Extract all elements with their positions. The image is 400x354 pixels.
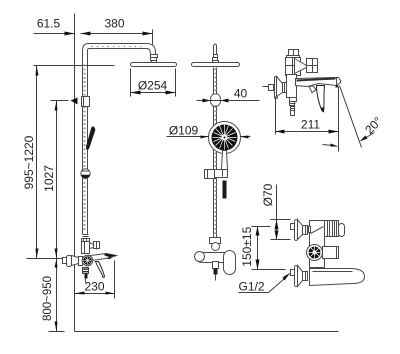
svg-text:800~950: 800~950 xyxy=(42,276,54,321)
faucet left fig: diverter cone xyxy=(90,243,94,249)
hand shower handle xyxy=(222,151,228,170)
shower column xyxy=(83,63,88,235)
dim 211 xyxy=(276,97,339,135)
overhead shower head xyxy=(131,63,177,67)
hand shower bracket xyxy=(205,170,228,179)
right top faucet: lower body xyxy=(287,75,297,98)
svg-text:230: 230 xyxy=(84,280,104,294)
wall line xyxy=(74,14,76,332)
middle fig: slider fitting 40 xyxy=(211,94,221,106)
middle faucet: body bar xyxy=(197,253,230,263)
svg-text:Ø70: Ø70 xyxy=(261,183,275,206)
G1/2 label xyxy=(239,273,291,294)
right bottom faucet: top flange xyxy=(291,220,311,241)
right bottom faucet: spout xyxy=(310,269,365,286)
dim 150+-15 xyxy=(240,226,286,269)
middle faucet: left cap xyxy=(195,252,205,262)
arm ball joint xyxy=(151,55,158,64)
faucet left fig: body xyxy=(82,242,90,254)
faucet left fig: diverter box xyxy=(94,242,100,250)
right top faucet: lever xyxy=(317,86,325,112)
right top faucet: diverter box xyxy=(307,59,318,73)
faucet left fig: control knob xyxy=(82,255,93,266)
middle faucet: top fitting xyxy=(210,238,221,244)
middle faucet: outlet xyxy=(213,262,219,281)
svg-text:40: 40 xyxy=(234,87,248,101)
hand shower hose xyxy=(223,181,227,199)
hand shower left fig xyxy=(86,126,95,149)
slider holder block xyxy=(82,97,90,107)
svg-text:380: 380 xyxy=(104,17,124,31)
right bottom faucet: control knob xyxy=(307,245,323,261)
dim 800-950 xyxy=(42,259,65,332)
dim 1027 xyxy=(42,101,57,259)
right bottom faucet: diverter knob xyxy=(325,221,345,237)
middle fig: column xyxy=(214,68,217,238)
middle faucet: lever handle xyxy=(224,251,236,275)
faucet left fig: wall flange xyxy=(63,256,83,267)
dim 995-1220 xyxy=(22,66,39,259)
column ring bracket xyxy=(81,169,90,179)
svg-text:G1/2: G1/2 xyxy=(239,280,265,294)
right top faucet: outlet stem xyxy=(290,98,297,116)
dim 230 xyxy=(75,261,115,299)
right top faucet: wall flange xyxy=(263,77,287,99)
hand shower head circle xyxy=(209,122,241,154)
right top faucet: diverter cone xyxy=(295,59,307,74)
svg-text:Ø109: Ø109 xyxy=(169,124,199,138)
dim D254 xyxy=(131,69,176,97)
right bottom faucet: bottom flange xyxy=(291,266,308,287)
right bottom faucet: right arm xyxy=(323,247,339,259)
faucet left fig: lever xyxy=(96,262,105,278)
right top faucet: spout xyxy=(296,78,341,88)
right top faucet: lever connector xyxy=(309,86,316,93)
middle fig: head edge view xyxy=(192,63,240,67)
angle 20 lines xyxy=(323,86,385,152)
faucet left fig: outlet stem xyxy=(83,268,89,283)
floor line xyxy=(75,331,339,333)
shower arm xyxy=(83,44,156,63)
right top faucet: top cap xyxy=(287,50,300,59)
svg-text:61.5: 61.5 xyxy=(37,17,61,31)
svg-text:150±15: 150±15 xyxy=(240,226,254,266)
svg-text:995~1220: 995~1220 xyxy=(22,135,36,189)
faucet center extension line xyxy=(27,258,71,260)
right bottom faucet: body xyxy=(310,221,325,268)
middle faucet: diverter ring xyxy=(212,243,220,251)
dim D109 xyxy=(167,124,251,139)
right top faucet: body xyxy=(286,58,301,76)
svg-text:211: 211 xyxy=(301,118,320,132)
svg-text:Ø254: Ø254 xyxy=(138,79,168,93)
holder knob xyxy=(71,98,78,105)
faucet left fig: top nut xyxy=(82,239,90,243)
head level extension line xyxy=(34,65,115,67)
faucet left fig: spout xyxy=(91,254,117,261)
faucet left fig: column end bands xyxy=(83,235,89,237)
svg-text:1027: 1027 xyxy=(42,165,56,192)
1027 top tick xyxy=(51,100,69,102)
dim D70 xyxy=(261,183,291,239)
dim 380 xyxy=(81,17,153,45)
middle fig: top stem xyxy=(213,44,219,64)
dim 61.5 xyxy=(34,17,75,36)
dim 40 xyxy=(197,87,260,103)
